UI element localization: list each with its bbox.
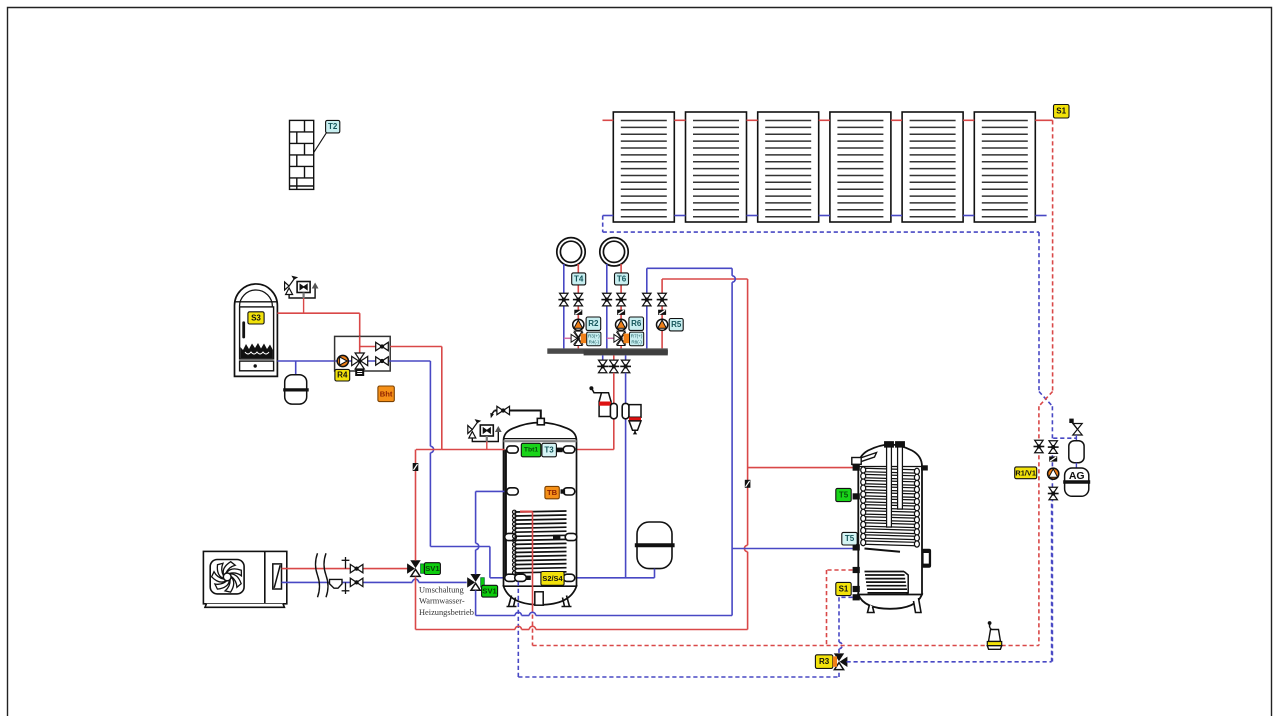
buffer internal stratification pipe [504,450,507,577]
pipe: solar flow down-leg (dashed red) [1038,406,1040,645]
buffer port mid-right [563,488,575,495]
pump R6 [616,319,627,330]
corrugated heat exchanger coil (DHW tank) [861,467,920,552]
pipe: buffer solar coil down (dashed red) [532,608,534,646]
buffer port bottom-left 2 [515,574,527,581]
solar pump R1/V1 [1048,468,1059,479]
manifold bar [547,348,668,353]
DHW tank port y=547.4 [853,544,860,550]
buffer port top-left [507,446,519,453]
buffer tank legs [507,592,572,607]
pipe: DHW loading return (blue) [646,268,648,348]
pipe: DHW flow top run [662,278,748,280]
valve (group lower) [376,357,389,365]
solar coil (DHW tank bottom) [865,572,909,595]
pipe: solar return lower riser [1051,500,1053,662]
check valve [658,310,666,315]
pump R2 [573,319,584,330]
sensor label T4 [572,273,586,285]
svg-text:R2: R2 [588,319,599,328]
svg-text:T3: T3 [544,446,554,455]
svg-text:Tbt1: Tbt1 [524,447,539,454]
pipe: circuit return 2 [606,264,608,348]
3-way valve R3 [834,653,848,669]
svg-text:T4: T4 [574,274,584,283]
pipe stub below manifold (blue) [602,355,604,360]
pipe: DHW loading flow (red) [661,279,663,348]
pipe: DHW return bottom run [476,615,515,617]
valve (HP return) [350,578,363,586]
pipe crossover: solar flow/return swap [1039,392,1052,407]
sensor well stubs (buffer) [557,448,563,453]
shut-off valve [620,360,631,373]
expansion vessel AG [1063,468,1090,496]
svg-text:R4: R4 [337,371,348,380]
pipe: heat pump return (blue) [282,581,413,583]
wood boiler S3 [235,284,278,376]
pipe: R3 to solar riser (dashed blue) [847,661,1052,663]
pipe: solar return run (dashed blue) [603,231,1039,233]
label T5 (upper) [836,488,851,501]
label R4 [335,369,350,381]
solar collector panel 1 [613,112,674,222]
switching valve SV1 (flow) [407,560,421,576]
valve below solar pump [1048,487,1059,500]
pipe: drop to buffer header [441,347,443,450]
svg-text:R3: R3 [819,657,830,666]
pipe: DHW return riser [731,268,733,276]
label S1 (DHW tank) [836,582,851,595]
pipe: heat pump flow (red) [282,568,408,570]
pipe: boiler flow (red) [277,312,359,314]
valve (group upper) [376,342,389,350]
pipe: SV1 up to heating header [415,450,417,561]
mixer of circuit 2 [614,331,626,345]
pipe: manifold to buffer top [613,373,615,450]
svg-text:R4(-): R4(-) [589,339,600,344]
pipe: solar flow inside coil (red) [532,512,534,608]
mixer of circuit 1 [571,331,583,345]
pipe: branch to solar expansion vessel [1053,437,1076,439]
pipe: into buffer top right port [576,449,614,451]
svg-text:SV1: SV1 [425,564,440,573]
pipe: return drop 2 [489,547,491,578]
pipe: DHW return top run [647,267,732,269]
DHW tank flange (right) [922,549,932,568]
pipe stub below manifold (red) [613,355,615,360]
pump R5 [657,319,668,330]
air separator with vent (red riser) [589,386,617,419]
label R2 [586,317,601,330]
pipe stub below manifold (blue 2) [625,355,627,360]
solar coil inside buffer tank [513,510,567,574]
svg-text:T2: T2 [328,122,338,131]
shut-off valve [573,293,584,306]
pipe: buffer bottom right run [576,577,655,579]
pipe: header into buffer left port [442,449,505,451]
pipe: DHW solar return drop [838,597,840,642]
label R1/V1 [1015,467,1037,479]
vent outlet arrow [492,411,495,414]
pipe: solar return down-leg (dashed blue) [1051,406,1053,661]
pipe: solar flow bottom run (dashed red) [533,645,1039,647]
pipe: boiler return (blue) [277,360,334,362]
4-way mixer (boiler) [352,353,368,376]
pipe: solar return bottom run (dashed blue) [518,676,839,678]
DHW tank port y=597.3 [853,594,860,600]
label TB [545,486,559,498]
DHW tank port y=467.6 [853,465,860,471]
label SV1 (return) [482,585,498,597]
solar collector panel 2 [686,112,747,222]
pipe: DHW solar flow drop [826,570,828,646]
solar collector panel 3 [758,112,819,222]
pipe: solar return drop (dashed blue) [602,216,604,233]
buffer port mid-left [507,488,519,495]
heating circuit 2: consumer symbol [600,238,628,266]
pipe: into buffer mid-left port [476,490,505,492]
heat pump fan [212,562,242,592]
svg-text:T5: T5 [845,534,855,543]
dirt trap (blue line) [330,579,343,588]
pipe: solar return riser (dashed blue) [1038,232,1040,391]
shut-off valve [601,293,612,306]
label R7(+) R8(-) [630,332,644,346]
solar collector panel 5 [902,112,963,222]
pump R4 (boiler circuit) [337,355,348,366]
label R3(+) R4(-) [587,332,601,346]
check valve on DHW flow riser [745,480,751,488]
label T5 (lower) [842,532,857,545]
pipe: SV1 down (blue) [475,590,477,615]
shut-off valve [616,293,627,306]
pipe: collector flow header (red) [603,119,614,121]
leader line T2 [314,133,327,153]
pipe: return run to buffer bottom [430,546,490,548]
pipe: into buffer bottom port [490,577,505,579]
buffer port bottom-left [505,574,517,581]
pipe: collector return header (blue) [603,215,614,217]
dirt separator (blue riser) [622,403,641,434]
DHW tank port y=570.0 [853,567,860,573]
svg-text:S2/S4: S2/S4 [542,574,563,583]
solar collector panel 4 [830,112,891,222]
shut-off valve [641,293,652,306]
pipe: return drop (blue) [429,361,431,446]
DHW tank legs [868,598,922,613]
switching valve SV1 (return) [467,574,481,590]
automatic air vent (bottom line) [987,621,1001,649]
pipe: group return out (blue) [390,360,430,362]
safety valve above solar expansion vessel [1069,419,1082,435]
svg-text:R5: R5 [671,320,682,329]
label R3 [815,655,832,669]
valve on solar flow leg [1034,440,1045,453]
sensor label S3 (boiler) [248,312,264,324]
pipe: DHW flow riser [747,279,749,545]
svg-text:S3: S3 [251,313,261,322]
check valve [617,310,625,315]
svg-text:AG: AG [1069,470,1085,482]
DHW tank right shoulder stub [921,465,928,470]
label SV1 (flow) [424,563,440,575]
svg-text:R7(+): R7(+) [631,333,643,338]
svg-text:T6: T6 [617,274,627,283]
vent valve (buffer top) [497,406,510,414]
expansion vessel (heating) [635,522,675,569]
pipe: blue inside group [335,360,391,362]
pipe: up to R3 [838,670,840,678]
DHW tank port y=589.0 [853,586,860,592]
buffer port coil-left [505,533,517,540]
boiler mixing group box [335,336,391,371]
sensor label S1 (collector) [1054,105,1070,119]
pipe: buffer to R3 (dashed blue) [517,582,519,677]
pipe: manifold return to buffer bottom [625,373,627,578]
valve (HP flow) [350,564,363,572]
pipe: DHW flow bottom run [416,629,516,631]
shut-off valve [597,360,608,373]
shut-off valve [558,293,569,306]
safety group (buffer) [468,420,502,442]
svg-text:T5: T5 [839,491,849,500]
pipe: solar flow riser (dashed red) [1052,120,1054,391]
heat pump condenser [273,564,282,589]
label Bht [378,386,394,402]
pipe: circuit return 1 [563,264,565,348]
pipe: mixer bypass (pink) [607,337,617,339]
shut-off valve [657,293,668,306]
pipe: SV1 up to buffer mid port [475,550,477,575]
sensor label T2 (outside) [326,120,340,132]
pipe: to DHW tank mid port [732,548,859,550]
check valve above SV1 [413,463,419,471]
heating circuit 1: consumer symbol [557,238,585,266]
label Tbd1 [521,443,541,457]
pipe: buffer top header (red) [416,449,442,451]
fill/drain tap (blue line) [342,582,350,594]
pipe: circuit flow 2 [620,264,622,348]
pipe: mixer bypass (pink) [564,337,575,339]
buffer port coil-right [565,533,577,540]
label R5 [669,319,683,331]
svg-text:TB: TB [547,488,558,497]
svg-text:S1: S1 [1056,107,1066,116]
label T3 [542,443,557,457]
pipe: red inside group [360,336,376,353]
svg-text:Bht: Bht [380,389,393,398]
svg-text:R3(+): R3(+) [588,333,600,338]
DHW hygiene tank body [858,445,922,609]
pipe: DHW solar return (dashed blue) [839,596,853,598]
wall pass-through (wavy lines) [316,553,329,597]
check valve [574,310,582,315]
pipe: circuit flow 1 [577,264,579,348]
svg-text:R1/V1: R1/V1 [1015,468,1036,477]
buffer tank top cap and vent line [537,418,544,424]
shut-off valve [608,360,619,373]
valve above solar pump [1048,441,1059,454]
svg-text:S1: S1 [839,585,849,594]
outside wall symbol [290,120,314,189]
pipe: DHW solar flow (dashed red) [827,569,853,571]
pipe: group flow out (red) [390,346,442,348]
pipe: SV1 down (red) [415,577,417,630]
small vessel of solar safety group [1075,435,1077,441]
label R6 [629,317,644,330]
DHW tank top-left stub pipe [853,453,877,465]
pipe: boiler flow drop into mixing group [359,313,361,336]
safety group (boiler) [285,277,319,299]
buffer port bottom-right [563,574,575,581]
fill/drain tap (red line) [342,557,350,569]
svg-text:R6: R6 [631,319,642,328]
DHW tank port y=496.4 [853,493,860,499]
check valve solar station [1049,456,1057,461]
buffer storage tank [504,423,577,605]
label S2/S4 [541,572,564,586]
pipe: to DHW tank top port [748,467,859,469]
DHW tank top sensor wells [885,442,905,527]
solar collector panel 6 [974,112,1035,222]
expansion vessel (boiler) [295,361,297,375]
sensor label T6 [615,273,629,285]
heat pump outdoor unit [203,551,286,607]
buffer port top-right [563,446,575,453]
svg-text:SV1: SV1 [482,587,497,596]
svg-text:R8(-): R8(-) [631,339,642,344]
